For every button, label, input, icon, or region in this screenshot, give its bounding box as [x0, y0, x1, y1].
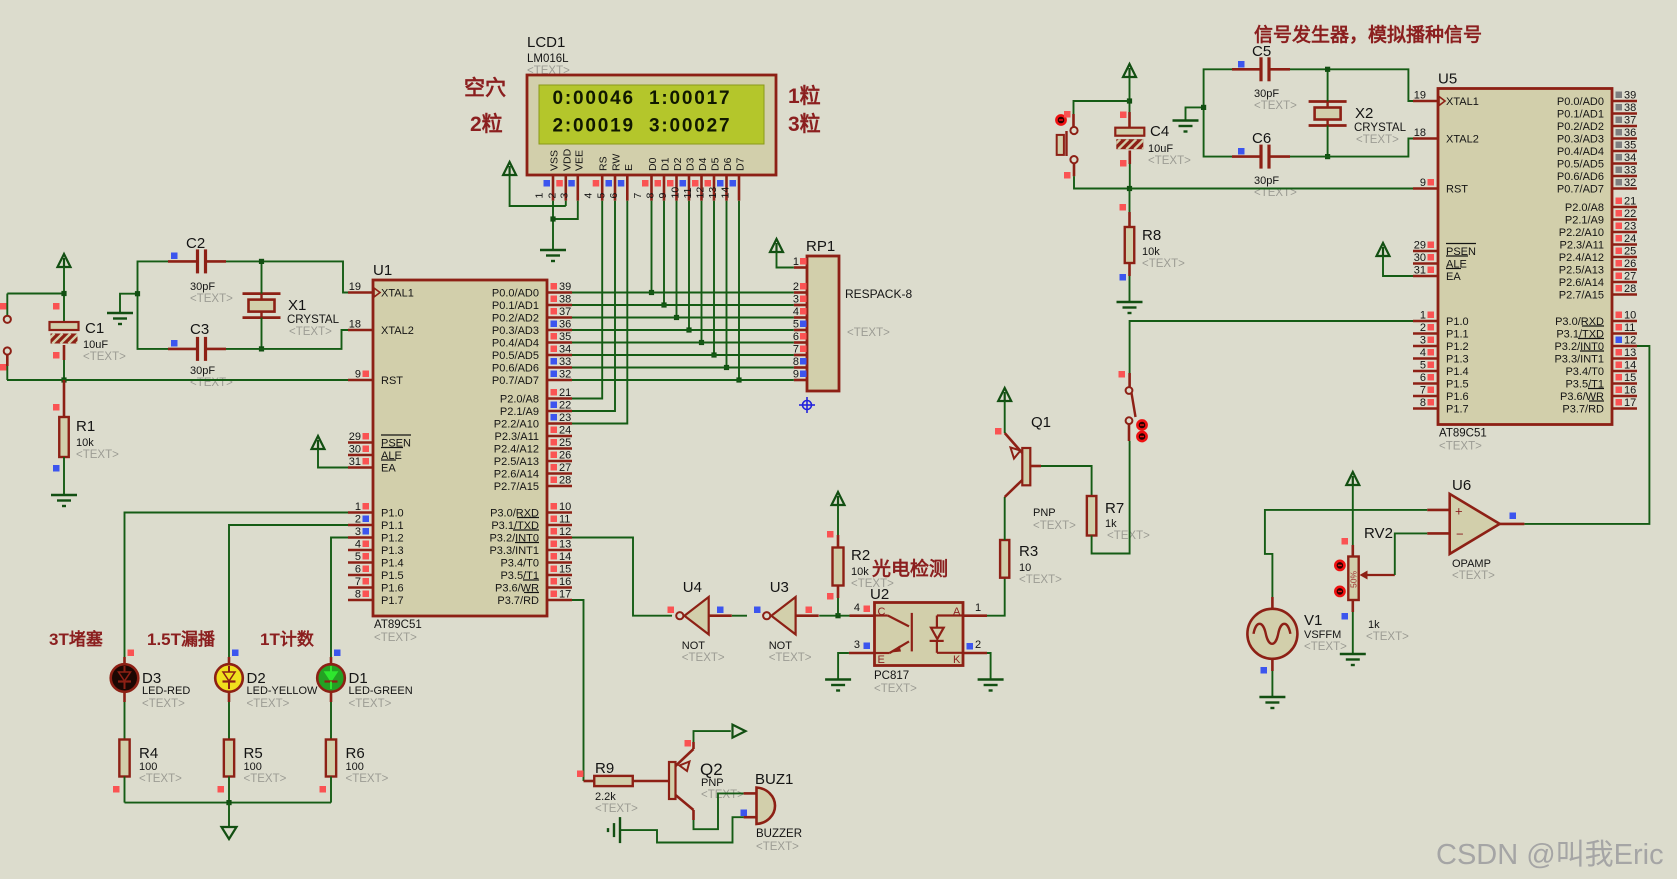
- svg-text:VEE: VEE: [573, 150, 585, 171]
- svg-text:<TEXT>: <TEXT>: [1439, 441, 1482, 453]
- wire Q2 collector to buzzer: [692, 810, 695, 820]
- svg-text:P3.7/RD: P3.7/RD: [1562, 404, 1604, 416]
- svg-text:P1.7: P1.7: [1446, 404, 1469, 416]
- svg-text:1粒: 1粒: [788, 84, 821, 108]
- U5 pin 36 P0.3/AD3: [1612, 137, 1637, 140]
- svg-text:<TEXT>: <TEXT>: [1356, 134, 1399, 146]
- svg-text:空穴: 空穴: [464, 76, 506, 100]
- svg-text:C4: C4: [1150, 123, 1169, 140]
- svg-text:9: 9: [657, 193, 669, 199]
- svg-text:<TEXT>: <TEXT>: [244, 773, 287, 785]
- svg-text:10: 10: [670, 187, 682, 199]
- svg-text:P0.4/AD4: P0.4/AD4: [1557, 146, 1604, 158]
- U1 pin 22 P2.1/A9: [547, 410, 572, 413]
- MCU U1 AT89C51: [373, 280, 547, 616]
- LED D2 LED-YELLOW: [215, 664, 243, 692]
- blue origin marker: [799, 397, 815, 413]
- svg-text:P3.3/INT1: P3.3/INT1: [1554, 354, 1604, 366]
- svg-text:10k: 10k: [851, 566, 869, 578]
- svg-text:11: 11: [1624, 322, 1635, 334]
- resistor R6 100: [326, 740, 336, 777]
- RP1 pin 7: [794, 354, 807, 357]
- svg-text:AT89C51: AT89C51: [374, 619, 422, 631]
- svg-text:6: 6: [608, 193, 620, 199]
- svg-text:<TEXT>: <TEXT>: [595, 803, 638, 815]
- svg-text:15: 15: [1624, 372, 1636, 384]
- svg-text:P1.7: P1.7: [381, 595, 404, 607]
- U1 pin 12 P3.2/INT0: [547, 536, 572, 539]
- U5 pin 3 P1.2: [1413, 345, 1438, 348]
- U5 pin 29 PSEN: [1413, 250, 1438, 253]
- svg-text:39: 39: [559, 281, 571, 293]
- svg-text:RS: RS: [598, 156, 610, 171]
- svg-text:38: 38: [559, 294, 571, 306]
- svg-text:35: 35: [559, 331, 571, 343]
- svg-text:X2: X2: [1355, 105, 1373, 122]
- power arrow at U5 EA: [1377, 243, 1390, 256]
- U1 pin 4 P1.3: [348, 549, 373, 552]
- svg-text:VDD: VDD: [561, 148, 573, 171]
- svg-text:U6: U6: [1452, 477, 1471, 494]
- ground under R1: [51, 494, 77, 496]
- svg-text:RST: RST: [381, 375, 403, 387]
- svg-text:<TEXT>: <TEXT>: [1452, 570, 1495, 582]
- wire VDD power: [510, 175, 566, 206]
- junction button branch: [1127, 98, 1132, 103]
- LCD screen: [539, 85, 764, 144]
- svg-text:D3: D3: [685, 157, 697, 171]
- wire EA: [318, 449, 348, 468]
- svg-text:4: 4: [583, 193, 595, 199]
- svg-text:X1: X1: [288, 297, 306, 314]
- svg-text:D7: D7: [735, 157, 747, 171]
- svg-text:<TEXT>: <TEXT>: [682, 652, 725, 664]
- U1 pin 30 ALE: [348, 454, 373, 457]
- svg-text:27: 27: [1624, 271, 1636, 283]
- svg-text:1: 1: [793, 256, 799, 268]
- svg-text:<TEXT>: <TEXT>: [374, 632, 417, 644]
- svg-text:R1: R1: [76, 418, 95, 435]
- U1 pin 8 P1.7: [348, 599, 373, 602]
- svg-text:VSS: VSS: [549, 150, 561, 171]
- svg-text:<TEXT>: <TEXT>: [190, 377, 233, 389]
- switch SW1: [1128, 373, 1131, 387]
- svg-text:P1.1: P1.1: [1446, 329, 1469, 341]
- U5 pin 16 P3.6/WR: [1612, 395, 1637, 398]
- svg-text:D0: D0: [647, 157, 659, 171]
- svg-text:9: 9: [1420, 177, 1426, 189]
- U6 input stubs: [1427, 509, 1450, 512]
- power arrow right at Q2: [733, 725, 746, 738]
- wire Q1 base to R7: [1030, 465, 1041, 468]
- svg-text:<TEXT>: <TEXT>: [142, 698, 185, 710]
- svg-text:1: 1: [355, 501, 361, 513]
- svg-text:P0.4/AD4: P0.4/AD4: [492, 338, 539, 350]
- svg-text:38: 38: [1624, 102, 1636, 114]
- svg-text:3: 3: [355, 526, 361, 538]
- U5 pin 25 P2.4/A12: [1612, 256, 1637, 259]
- svg-text:100: 100: [139, 761, 157, 773]
- junction R2/U3/U2: [835, 613, 840, 618]
- U5 pin 34 P0.5/AD5: [1612, 162, 1637, 165]
- wire power to Q1 emitter: [1004, 401, 1006, 433]
- wire U4 to U3: [732, 615, 747, 617]
- svg-text:C: C: [878, 606, 886, 618]
- U5 pin 8 P1.7: [1413, 407, 1438, 410]
- U1 pin 2 P1.1: [348, 524, 373, 527]
- U1 pin 31 EA: [348, 466, 373, 469]
- svg-text:13: 13: [559, 539, 571, 551]
- wire U5 EA: [1383, 256, 1413, 276]
- svg-text:V1: V1: [1304, 612, 1322, 629]
- svg-text:LED-GREEN: LED-GREEN: [349, 685, 413, 697]
- svg-text:R4: R4: [139, 745, 158, 762]
- svg-text:3: 3: [1420, 335, 1426, 347]
- U6 output stub: [1500, 523, 1525, 526]
- U5 pin 28 P2.7/A15: [1612, 293, 1637, 296]
- svg-text:P0.5/AD5: P0.5/AD5: [492, 350, 539, 362]
- U1 pin 5 P1.4: [348, 561, 373, 564]
- U1 pin 14 P3.4/T0: [547, 561, 572, 564]
- svg-text:C2: C2: [186, 235, 205, 252]
- svg-text:P0.0/AD0: P0.0/AD0: [492, 288, 539, 300]
- svg-text:P2.3/A11: P2.3/A11: [495, 431, 539, 443]
- U5 pin 5 P1.4: [1413, 370, 1438, 373]
- svg-text:22: 22: [1624, 208, 1636, 220]
- svg-text:2: 2: [975, 639, 981, 651]
- power arrow at RP1: [770, 239, 783, 252]
- U5 pin 27 P2.6/A14: [1612, 281, 1637, 284]
- svg-text:24: 24: [1624, 233, 1636, 245]
- U1 pin 15 P3.5/T1: [547, 574, 572, 577]
- svg-text:1.5T漏播: 1.5T漏播: [147, 629, 216, 649]
- svg-text:33: 33: [1624, 165, 1636, 177]
- U5 pin 4 P1.3: [1413, 357, 1438, 360]
- svg-text:<TEXT>: <TEXT>: [1254, 100, 1297, 112]
- svg-text:<TEXT>: <TEXT>: [139, 773, 182, 785]
- svg-text:12: 12: [695, 187, 707, 199]
- U5 pin 17 P3.7/RD: [1612, 407, 1637, 410]
- svg-text:RST: RST: [1446, 184, 1468, 196]
- svg-text:CRYSTAL: CRYSTAL: [1354, 122, 1407, 134]
- svg-text:1: 1: [975, 602, 981, 614]
- ground near X1: [107, 312, 133, 314]
- push button near U5: [1072, 114, 1075, 127]
- svg-text:6: 6: [793, 331, 799, 343]
- svg-text:10: 10: [1019, 562, 1031, 574]
- wire X2 bottom: [1327, 126, 1329, 157]
- svg-text:BUZZER: BUZZER: [756, 828, 802, 840]
- svg-text:P3.4/T0: P3.4/T0: [1565, 366, 1604, 378]
- RP1 pin 3: [794, 304, 807, 307]
- wire A to R3: [987, 578, 1005, 616]
- wire R6 to gnd bus: [330, 777, 332, 803]
- svg-text:A: A: [953, 606, 961, 618]
- wire LED to R4: [123, 692, 126, 702]
- wire button bottom to RST row: [1073, 163, 1076, 176]
- wire E down: [572, 201, 627, 424]
- svg-text:NOT: NOT: [769, 640, 793, 652]
- optocoupler U2 PC817: [875, 603, 964, 666]
- U5 pin 6 P1.5: [1413, 382, 1438, 385]
- svg-text:18: 18: [1414, 127, 1426, 139]
- svg-text:<TEXT>: <TEXT>: [847, 327, 890, 339]
- RP1 pin 2: [794, 291, 807, 294]
- wire R7 bottom to switch: [1092, 441, 1130, 554]
- svg-text:33: 33: [559, 356, 571, 368]
- U5 pin 12 P3.2/INT0: [1612, 345, 1637, 348]
- svg-text:R6: R6: [346, 745, 365, 762]
- ground under R8: [1117, 301, 1143, 303]
- svg-text:30pF: 30pF: [1254, 175, 1279, 187]
- svg-text:4: 4: [355, 539, 361, 551]
- svg-text:D2: D2: [672, 157, 684, 171]
- U1 pin 24 P2.3/A11: [547, 435, 572, 438]
- svg-text:EA: EA: [1446, 271, 1461, 283]
- wire R4 to gnd bus: [124, 777, 126, 803]
- svg-text:10uF: 10uF: [1148, 143, 1173, 155]
- svg-text:30: 30: [349, 444, 361, 456]
- svg-text:7: 7: [793, 344, 799, 356]
- svg-text:P1.2: P1.2: [381, 533, 404, 545]
- svg-text:P1.5: P1.5: [381, 570, 404, 582]
- wire X1 bottom: [261, 318, 263, 349]
- wire Q2 emitter to power: [692, 742, 695, 749]
- svg-text:5: 5: [1420, 360, 1426, 372]
- ground under RV2: [1340, 653, 1366, 655]
- U1 pin 34 P0.5/AD5: [547, 354, 572, 357]
- svg-text:35: 35: [1624, 140, 1636, 152]
- LED D3 LED-RED: [111, 664, 139, 692]
- wire X2 top: [1327, 69, 1329, 101]
- svg-text:3: 3: [793, 294, 799, 306]
- sine source V1 VSFFM: [1247, 609, 1297, 659]
- bus wire P0.4 to RP1 pin 6: [572, 342, 794, 344]
- crystal X1: [243, 292, 281, 295]
- bus wire P0.3 to RP1 pin 5: [572, 329, 794, 331]
- svg-text:<TEXT>: <TEXT>: [1019, 574, 1062, 586]
- svg-text:P2.5/A13: P2.5/A13: [494, 456, 539, 468]
- U2 internal phototransistor: [875, 613, 912, 653]
- U1 pin 35 P0.4/AD4: [547, 341, 572, 344]
- svg-text:RESPACK-8: RESPACK-8: [845, 287, 912, 301]
- svg-text:32: 32: [1624, 177, 1636, 189]
- svg-text:<TEXT>: <TEXT>: [1142, 258, 1185, 270]
- U1 pin 36 P0.3/AD3: [547, 329, 572, 332]
- svg-text:34: 34: [559, 344, 571, 356]
- svg-text:P2.5/A13: P2.5/A13: [1559, 265, 1604, 277]
- inverter U3 NOT: [763, 612, 770, 619]
- resistor R3 10: [1000, 540, 1009, 578]
- resistor R2 10k: [833, 548, 844, 586]
- svg-text:P2.2/A10: P2.2/A10: [494, 419, 539, 431]
- svg-text:D1: D1: [660, 157, 672, 171]
- svg-text:P2.2/A10: P2.2/A10: [1559, 227, 1604, 239]
- svg-text:<TEXT>: <TEXT>: [1107, 530, 1150, 542]
- wire power to C1: [63, 267, 65, 322]
- svg-text:12: 12: [559, 526, 571, 538]
- svg-text:23: 23: [559, 412, 571, 424]
- svg-text:11: 11: [682, 187, 694, 198]
- U5 pin 14 P3.4/T0: [1612, 370, 1637, 373]
- U1 pin 1 P1.0: [348, 511, 373, 514]
- svg-text:D5: D5: [710, 157, 722, 171]
- MCU U5 AT89C51: [1438, 89, 1612, 425]
- svg-text:P3.7/RD: P3.7/RD: [497, 595, 539, 607]
- svg-text:1: 1: [534, 193, 546, 199]
- svg-text:P2.1/A9: P2.1/A9: [1565, 215, 1604, 227]
- svg-text:7: 7: [1420, 385, 1426, 397]
- svg-text:XTAL1: XTAL1: [1446, 96, 1479, 108]
- svg-text:15: 15: [559, 564, 571, 576]
- wire U5 P3.2 to opamp output: [1524, 346, 1649, 524]
- svg-text:25: 25: [559, 437, 571, 449]
- U5 pin 31 EA: [1413, 275, 1438, 278]
- svg-text:C6: C6: [1252, 130, 1271, 147]
- RV2 wiper: [1365, 574, 1395, 576]
- svg-text:CSDN @叫我Eric: CSDN @叫我Eric: [1436, 838, 1664, 871]
- U1 pin 11 P3.1/TXD: [547, 524, 572, 527]
- svg-text:22: 22: [559, 400, 571, 412]
- wire power down: [1129, 77, 1131, 112]
- svg-text:C1: C1: [85, 320, 104, 337]
- switch toggle arrows: [1137, 420, 1146, 429]
- U5 pin 2 P1.1: [1413, 332, 1438, 335]
- U5 pin 38 P0.1/AD1: [1612, 112, 1637, 115]
- svg-text:10: 10: [1624, 310, 1636, 322]
- power arrow at RV2: [1346, 472, 1359, 485]
- U5 pin 24 P2.3/A11: [1612, 243, 1637, 246]
- svg-text:PNP: PNP: [701, 777, 724, 789]
- U2 pin 1 A: [963, 614, 987, 617]
- svg-text:30: 30: [1414, 252, 1426, 264]
- svg-text:P1.5: P1.5: [1446, 379, 1469, 391]
- svg-text:U1: U1: [373, 262, 392, 279]
- svg-text:<TEXT>: <TEXT>: [701, 789, 744, 801]
- svg-text:AT89C51: AT89C51: [1439, 428, 1487, 440]
- power arrow at U1 EA: [312, 436, 325, 449]
- svg-text:P1.3: P1.3: [381, 545, 404, 557]
- svg-text:P3.4/T0: P3.4/T0: [500, 558, 539, 570]
- resistor R8 10k: [1129, 189, 1131, 213]
- svg-text:30pF: 30pF: [190, 365, 215, 377]
- wire K to ground: [987, 653, 991, 680]
- U5 pin 37 P0.2/AD2: [1612, 125, 1637, 128]
- svg-text:6: 6: [1420, 372, 1426, 384]
- svg-text:P0.6/AD6: P0.6/AD6: [1557, 171, 1604, 183]
- svg-text:P0.7/AD7: P0.7/AD7: [1557, 184, 1604, 196]
- svg-text:E: E: [878, 654, 885, 666]
- U1 pin 37 P0.2/AD2: [547, 316, 572, 319]
- ground under LCD: [540, 249, 566, 251]
- svg-text:5: 5: [355, 551, 361, 563]
- wire C2 left bus: [138, 261, 169, 349]
- wire VSS/VEE to ground: [552, 201, 554, 250]
- svg-text:P1.0: P1.0: [1446, 316, 1469, 328]
- wire D1 down to P0.1 bus: [663, 201, 665, 305]
- U1 pin 33 P0.6/AD6: [547, 366, 572, 369]
- svg-text:P2.4/A12: P2.4/A12: [494, 444, 539, 456]
- svg-text:OPAMP: OPAMP: [1452, 558, 1491, 570]
- svg-text:D4: D4: [697, 157, 709, 171]
- svg-text:16: 16: [559, 576, 571, 588]
- bus wire P0.1 to RP1 pin 3: [572, 304, 794, 306]
- U5 pin 7 P1.6: [1413, 395, 1438, 398]
- svg-text:2.2k: 2.2k: [595, 791, 616, 803]
- inverter U4 NOT: [676, 612, 683, 619]
- svg-text:P1.2: P1.2: [1446, 341, 1469, 353]
- svg-text:2: 2: [546, 193, 558, 199]
- svg-text:−: −: [1456, 527, 1464, 542]
- wire LED to R5: [228, 692, 231, 702]
- wire R2 to junction: [837, 586, 840, 599]
- bus wire P0.0 to RP1 pin 2: [572, 292, 794, 294]
- svg-text:XTAL2: XTAL2: [1446, 134, 1479, 146]
- wire U3 input to junction: [819, 615, 849, 617]
- U5 pin 18 XTAL2: [1413, 137, 1438, 140]
- wire D7 down to P0.7 bus: [738, 201, 740, 380]
- wire C5 left bus: [1204, 69, 1232, 156]
- svg-text:5: 5: [793, 319, 799, 331]
- U2 internal LED: [930, 616, 963, 653]
- svg-text:P1.1: P1.1: [381, 520, 404, 532]
- RV2 toggle arrows: [1335, 561, 1344, 570]
- svg-text:U4: U4: [683, 579, 702, 596]
- svg-text:LED-YELLOW: LED-YELLOW: [247, 685, 319, 697]
- wire U1 LED-RED to LED D3: [125, 513, 349, 658]
- U1 pin 7 P1.6: [348, 586, 373, 589]
- svg-text:34: 34: [1624, 152, 1636, 164]
- svg-text:P1.0: P1.0: [381, 508, 404, 520]
- svg-text:P2.6/A14: P2.6/A14: [1559, 277, 1604, 289]
- svg-text:P0.6/AD6: P0.6/AD6: [492, 363, 539, 375]
- svg-text:5: 5: [596, 193, 608, 199]
- svg-text:<TEXT>: <TEXT>: [1033, 520, 1076, 532]
- svg-text:3: 3: [854, 639, 860, 651]
- bus wire P0.6 to RP1 pin 8: [572, 367, 794, 369]
- RP1 pin 6: [794, 341, 807, 344]
- bus wire P0.7 to RP1 pin 9: [572, 379, 794, 381]
- svg-text:26: 26: [559, 450, 571, 462]
- resistor pack RP1 RESPACK-8: [807, 256, 839, 391]
- resistor R1 10k: [63, 380, 66, 417]
- svg-text:P0.1/AD1: P0.1/AD1: [492, 300, 539, 312]
- resistor R9 2.2k: [584, 780, 595, 783]
- ground under U2 K: [978, 678, 1004, 680]
- power arrow top-left: [58, 254, 71, 267]
- wire C2 to XTAL1: [226, 261, 348, 292]
- wire D4 down to P0.4 bus: [701, 201, 703, 343]
- wire RST row to U5: [1130, 188, 1414, 190]
- svg-text:<TEXT>: <TEXT>: [1148, 155, 1191, 167]
- svg-text:P0.3/AD3: P0.3/AD3: [1557, 134, 1604, 146]
- junction RST row U5: [1127, 186, 1132, 191]
- svg-text:<TEXT>: <TEXT>: [83, 351, 126, 363]
- wire U1 LED-GREEN to LED D1: [331, 538, 348, 658]
- svg-text:21: 21: [559, 387, 571, 399]
- ground near X2: [1173, 119, 1199, 121]
- svg-text:12: 12: [1624, 335, 1636, 347]
- svg-text:2: 2: [1420, 322, 1426, 334]
- U5 pin 9 RST: [1413, 187, 1438, 190]
- wire R1 to ground: [63, 457, 65, 495]
- svg-text:P2.0/A8: P2.0/A8: [500, 394, 539, 406]
- svg-text:P2.0/A8: P2.0/A8: [1565, 202, 1604, 214]
- svg-text:<TEXT>: <TEXT>: [289, 326, 332, 338]
- U5 pin 39 P0.0/AD0: [1612, 100, 1637, 103]
- wire U1 P3.2 to U4: [572, 538, 672, 616]
- svg-text:37: 37: [559, 306, 571, 318]
